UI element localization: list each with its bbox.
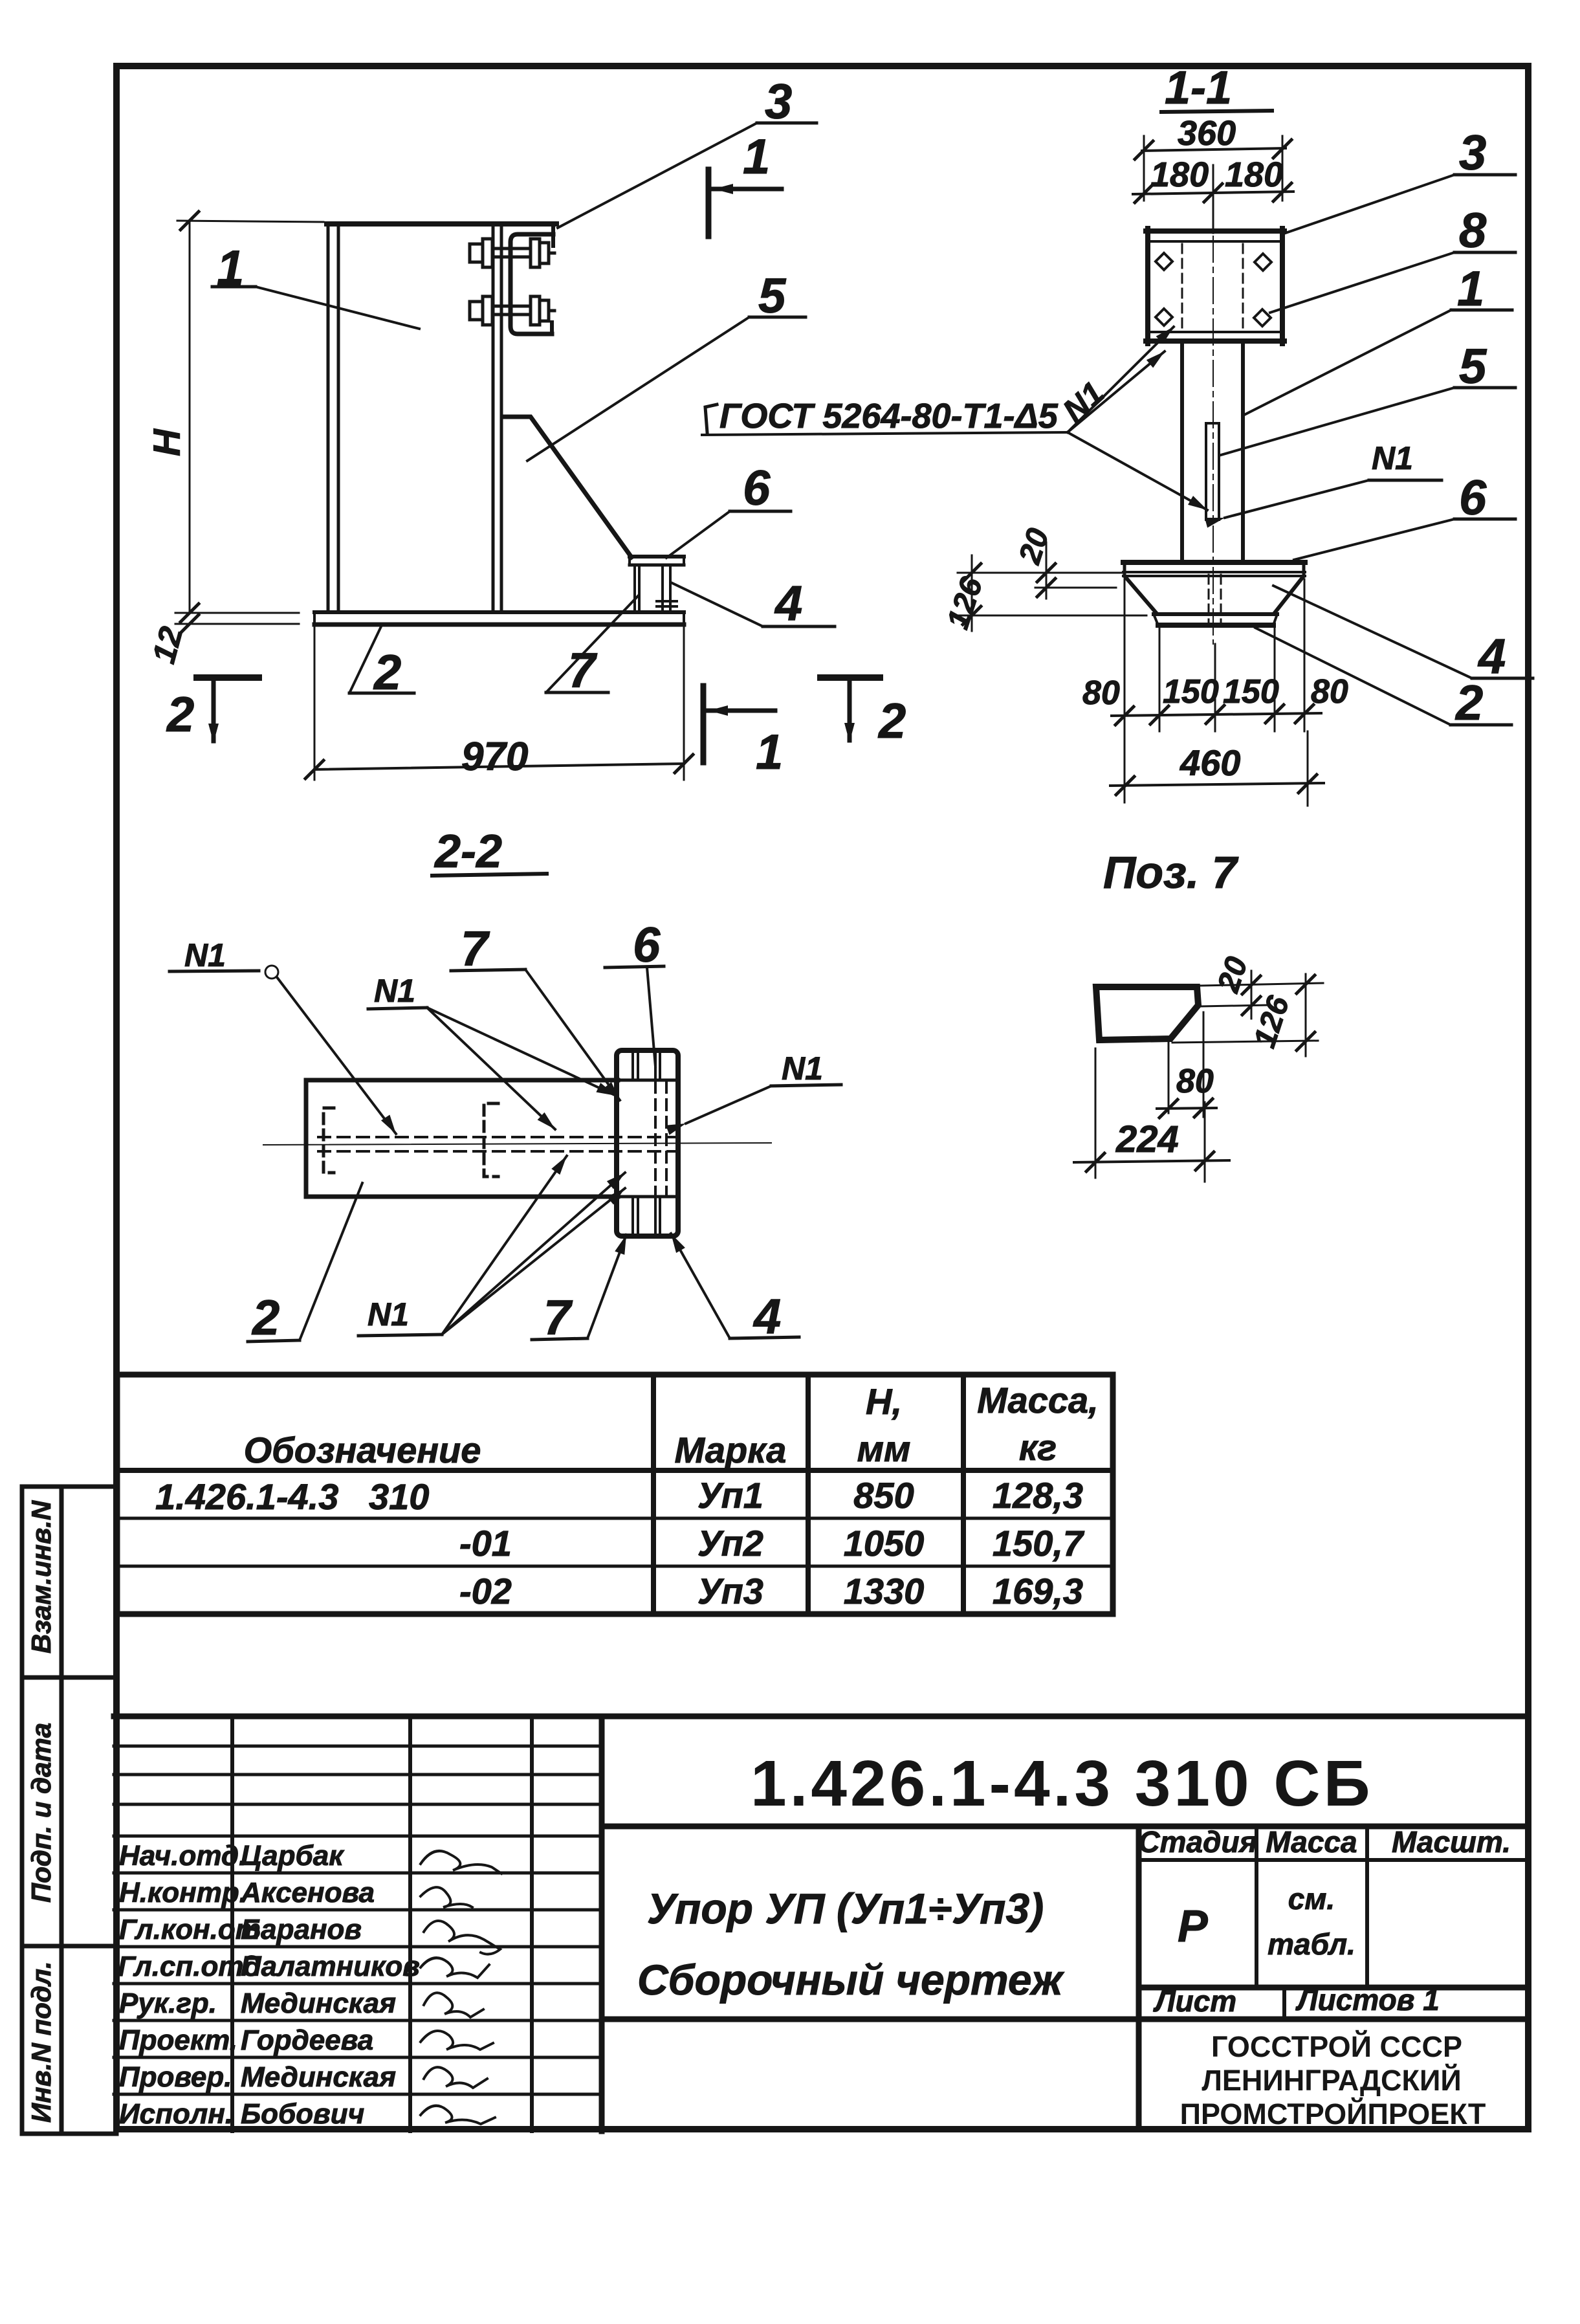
svg-text:224: 224 — [1115, 1118, 1179, 1160]
svg-text:Гл.сп.отд: Гл.сп.отд — [118, 1951, 261, 1982]
svg-text:табл.: табл. — [1267, 1927, 1355, 1961]
svg-text:Листов 1: Листов 1 — [1295, 1983, 1440, 2017]
svg-text:Уп3: Уп3 — [697, 1571, 763, 1611]
svg-text:8: 8 — [1459, 203, 1487, 258]
svg-text:Нач.отд.: Нач.отд. — [119, 1840, 247, 1872]
svg-text:Баранов: Баранов — [241, 1914, 362, 1945]
svg-text:80: 80 — [1311, 673, 1348, 711]
svg-text:H: H — [146, 428, 188, 456]
svg-text:Подп. и дата: Подп. и дата — [26, 1723, 56, 1903]
svg-text:Стадия: Стадия — [1138, 1825, 1256, 1859]
svg-text:2: 2 — [877, 694, 906, 749]
svg-text:Мединская: Мединская — [241, 2061, 396, 2093]
svg-text:Палатников: Палатников — [241, 1951, 420, 1982]
svg-text:80: 80 — [1176, 1063, 1214, 1100]
svg-text:1: 1 — [1457, 261, 1484, 316]
svg-text:Гордеева: Гордеева — [241, 2024, 373, 2056]
svg-text:ЛЕНИНГРАДСКИЙ: ЛЕНИНГРАДСКИЙ — [1201, 2064, 1461, 2097]
svg-text:Масса: Масса — [1266, 1825, 1357, 1859]
svg-text:5: 5 — [1459, 339, 1487, 394]
svg-text:1: 1 — [743, 129, 770, 184]
svg-text:-02: -02 — [459, 1571, 512, 1611]
svg-text:кг: кг — [1019, 1427, 1057, 1468]
svg-text:ГОССТРОЙ СССР: ГОССТРОЙ СССР — [1211, 2030, 1462, 2063]
svg-text:N1: N1 — [1372, 440, 1413, 476]
svg-text:N1: N1 — [782, 1050, 823, 1087]
svg-text:Мединская: Мединская — [241, 1987, 396, 2019]
svg-text:см.: см. — [1288, 1882, 1335, 1916]
svg-text:6: 6 — [1459, 470, 1487, 526]
svg-text:7: 7 — [461, 922, 490, 977]
svg-text:970: 970 — [461, 735, 528, 779]
svg-text:Н.контр.: Н.контр. — [119, 1877, 247, 1909]
svg-text:150: 150 — [1163, 673, 1219, 711]
svg-text:4: 4 — [774, 576, 802, 631]
svg-text:Гл.кон.от: Гл.кон.от — [119, 1914, 261, 1945]
svg-text:3: 3 — [1459, 126, 1486, 181]
svg-text:Р: Р — [1178, 1901, 1208, 1951]
svg-text:180: 180 — [1150, 155, 1209, 194]
svg-text:7: 7 — [568, 643, 598, 698]
svg-text:мм: мм — [857, 1428, 911, 1469]
svg-text:180: 180 — [1225, 155, 1283, 194]
svg-text:Поз. 7: Поз. 7 — [1103, 847, 1239, 898]
svg-text:ГОСТ 5264-80-Т1-Δ5: ГОСТ 5264-80-Т1-Δ5 — [719, 397, 1059, 436]
svg-text:-01: -01 — [459, 1523, 512, 1564]
svg-text:2: 2 — [1454, 676, 1483, 731]
svg-text:360: 360 — [1178, 114, 1236, 153]
svg-text:Упор УП (Уп1÷Уп3): Упор УП (Уп1÷Уп3) — [647, 1885, 1044, 1932]
svg-text:Масса,: Масса, — [977, 1380, 1098, 1421]
svg-text:Аксенова: Аксенова — [240, 1877, 375, 1909]
svg-text:Рук.гр.: Рук.гр. — [119, 1987, 217, 2019]
svg-text:128,3: 128,3 — [993, 1475, 1083, 1516]
svg-text:Проект.: Проект. — [119, 2024, 237, 2056]
svg-text:2: 2 — [251, 1290, 280, 1345]
svg-text:Лист: Лист — [1153, 1984, 1236, 2018]
svg-text:N1: N1 — [368, 1296, 409, 1333]
svg-text:6: 6 — [743, 461, 771, 516]
svg-text:169,3: 169,3 — [993, 1571, 1083, 1611]
svg-text:2-2: 2-2 — [433, 826, 502, 878]
svg-text:1050: 1050 — [844, 1523, 925, 1564]
svg-text:1.426.1-4.3 310 СБ: 1.426.1-4.3 310 СБ — [751, 1747, 1373, 1820]
svg-text:150: 150 — [1223, 673, 1279, 711]
svg-text:1: 1 — [756, 725, 783, 780]
svg-text:Уп1: Уп1 — [697, 1475, 763, 1516]
svg-text:5: 5 — [758, 269, 787, 324]
svg-text:150,7: 150,7 — [993, 1523, 1085, 1564]
svg-text:460: 460 — [1180, 742, 1240, 783]
svg-text:N1: N1 — [374, 973, 415, 1009]
svg-text:80: 80 — [1082, 674, 1120, 712]
svg-text:Царбак: Царбак — [241, 1840, 345, 1872]
svg-text:Марка: Марка — [675, 1430, 787, 1470]
svg-text:850: 850 — [853, 1475, 914, 1516]
svg-text:3: 3 — [765, 74, 792, 129]
svg-text:Бобович: Бобович — [241, 2098, 364, 2130]
svg-text:Уп2: Уп2 — [697, 1523, 763, 1564]
svg-text:N1: N1 — [184, 937, 226, 973]
svg-text:Взам.инв.N: Взам.инв.N — [26, 1500, 56, 1654]
svg-text:6: 6 — [633, 918, 661, 973]
svg-text:1-1: 1-1 — [1165, 62, 1232, 114]
svg-text:Н,: Н, — [866, 1381, 902, 1422]
svg-text:Провер.: Провер. — [119, 2061, 232, 2093]
svg-text:1.426.1-4.3 310: 1.426.1-4.3 310 — [155, 1476, 429, 1517]
svg-text:Обозначение: Обозначение — [244, 1430, 481, 1470]
svg-text:Инв.N подл.: Инв.N подл. — [26, 1961, 56, 2123]
svg-text:2: 2 — [166, 687, 194, 742]
svg-text:ПРОМСТРОЙПРОЕКТ: ПРОМСТРОЙПРОЕКТ — [1180, 2097, 1486, 2130]
svg-text:Исполн.: Исполн. — [119, 2098, 233, 2130]
svg-text:Масшт.: Масшт. — [1392, 1825, 1511, 1859]
svg-text:Сборочный чертеж: Сборочный чертеж — [637, 1956, 1065, 2004]
svg-text:1330: 1330 — [844, 1571, 925, 1611]
